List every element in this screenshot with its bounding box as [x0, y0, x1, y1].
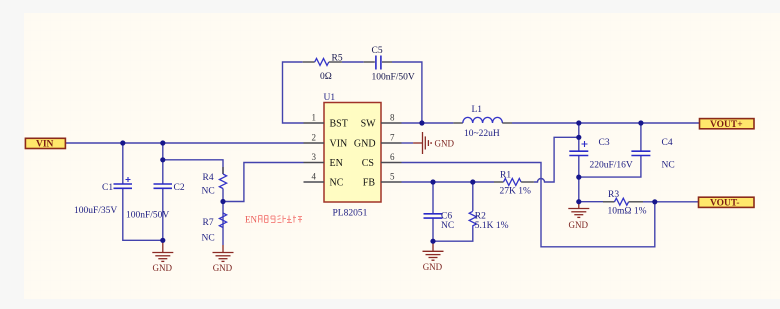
wire: R5 to C5 top segment — [342, 61, 364, 63]
pin 8 SW — [381, 122, 402, 124]
svg-text:EN: EN — [245, 215, 257, 225]
svg-text:C5: C5 — [372, 46, 383, 56]
resistor R4 — [202, 167, 227, 197]
node C3 top/FB sense — [576, 135, 581, 140]
port VIN — [25, 138, 65, 149]
svg-text:L1: L1 — [472, 105, 483, 115]
svg-text:C4: C4 — [662, 138, 673, 148]
svg-text:10~22uH: 10~22uH — [464, 129, 500, 139]
svg-text:3: 3 — [312, 152, 317, 162]
pin 5 FB — [381, 181, 402, 183]
pin 3 EN — [304, 162, 325, 164]
wire: R1 right with hop over CS — [534, 137, 579, 182]
port VOUT+ — [700, 119, 755, 130]
pin 7 GND — [381, 142, 402, 144]
capacitor C2 — [126, 183, 185, 221]
wire: C6 drop — [432, 182, 434, 214]
svg-text:4: 4 — [312, 172, 317, 182]
pin 6 CS — [381, 162, 402, 164]
svg-text:SW: SW — [361, 119, 377, 130]
svg-text:GND: GND — [153, 263, 173, 273]
node VOUT+/C4 — [638, 120, 643, 125]
svg-text:100nF/50V: 100nF/50V — [372, 73, 415, 83]
svg-text:NC: NC — [202, 187, 215, 197]
wire: L1 to VOUT+ — [512, 122, 700, 124]
node gnd/R3 — [576, 199, 581, 204]
svg-text:PL82051: PL82051 — [333, 209, 368, 219]
svg-text:C1: C1 — [102, 183, 113, 193]
svg-text:2: 2 — [312, 133, 317, 143]
node VOUT+/C3 — [576, 120, 581, 125]
wire: pin7 to power gnd — [402, 142, 414, 144]
wire: C5 to SW vertical — [392, 62, 422, 123]
svg-text:C3: C3 — [599, 138, 610, 148]
svg-text:VOUT-: VOUT- — [710, 199, 740, 209]
svg-text:C6: C6 — [441, 212, 452, 222]
svg-text:5: 5 — [390, 172, 395, 182]
wire: C3 top drop — [578, 123, 580, 151]
ground below R7 — [213, 245, 234, 273]
ground below C3 — [568, 203, 589, 231]
wire: CS run with hop down to bottom rail — [402, 163, 655, 247]
IC U1 PL82051 — [304, 93, 402, 219]
resistor R7 — [202, 213, 227, 244]
svg-text:27K 1%: 27K 1% — [500, 187, 531, 197]
node FB/R2 — [470, 179, 475, 184]
pin 1 BST — [304, 122, 325, 124]
inductor L1 — [453, 105, 512, 139]
resistor R2 — [469, 211, 508, 231]
svg-text:EN: EN — [330, 158, 343, 169]
wire: C2 vertical from VIN rail — [162, 143, 164, 184]
wire: gnd node to R3 — [579, 201, 603, 203]
power ground at pin 7 — [413, 132, 454, 154]
svg-text:8: 8 — [390, 113, 395, 123]
svg-text:6: 6 — [390, 152, 395, 162]
capacitor C4 — [631, 138, 674, 171]
wire: C4 top drop — [640, 123, 642, 151]
svg-text:VIN: VIN — [36, 140, 54, 150]
svg-text:R4: R4 — [203, 173, 214, 183]
svg-text:5.1K 1%: 5.1K 1% — [475, 221, 509, 231]
resistor R5 — [303, 54, 343, 83]
node FB/C6 — [430, 179, 435, 184]
node EN branch — [160, 157, 165, 162]
wire: C6 bottom to gnd node — [432, 218, 434, 241]
wire: R3 to VOUT- — [643, 201, 699, 203]
svg-text:C2: C2 — [174, 183, 185, 193]
svg-text:R7: R7 — [203, 218, 214, 228]
resistor R3 — [603, 190, 647, 217]
svg-text:1: 1 — [312, 113, 317, 123]
svg-text:R2: R2 — [475, 212, 486, 222]
node C2/VIN — [160, 140, 165, 145]
wire: C3 bottom / C4 bottom tie — [579, 155, 641, 202]
svg-text:R1: R1 — [500, 171, 511, 181]
svg-text:10mΩ 1%: 10mΩ 1% — [608, 207, 647, 217]
svg-text:R3: R3 — [608, 190, 619, 200]
svg-text:GND: GND — [423, 262, 443, 272]
wire: R2 drop — [472, 182, 474, 211]
svg-text:NC: NC — [441, 221, 454, 231]
node SW/bootstrap — [419, 120, 424, 125]
capacitor C1 — [74, 177, 132, 216]
pin 4 NC — [304, 181, 325, 183]
svg-text:NC: NC — [330, 178, 344, 189]
svg-text:220uF/16V: 220uF/16V — [590, 161, 633, 171]
svg-text:U1: U1 — [324, 93, 336, 103]
node R3/VOUT-/CS — [652, 199, 657, 204]
wire: BST loop left vertical — [283, 62, 304, 123]
node C3/C4 bottom — [576, 175, 581, 180]
svg-text:GND: GND — [569, 220, 589, 230]
wire: C2 bottom — [162, 188, 164, 240]
wire: SW to L1 — [402, 122, 454, 124]
resistor R1 — [494, 171, 534, 197]
ground below C6/R2 — [423, 242, 444, 272]
svg-text:7: 7 — [390, 133, 395, 143]
wire: C1 bottom to gnd rail — [123, 188, 163, 242]
svg-text:FB: FB — [363, 178, 376, 189]
node C1/VIN — [120, 140, 125, 145]
port VOUT- — [699, 197, 755, 208]
wire: R7 bottom to gnd — [222, 189, 224, 246]
node R4/R7 — [220, 199, 225, 204]
svg-text:100uF/35V: 100uF/35V — [74, 206, 117, 216]
svg-text:NC: NC — [662, 161, 675, 171]
svg-text:BST: BST — [330, 119, 348, 130]
svg-text:100nF/50V: 100nF/50V — [126, 211, 169, 221]
svg-text:0Ω: 0Ω — [320, 72, 332, 82]
svg-text:NC: NC — [202, 234, 215, 244]
ground below C1/C2 — [152, 242, 173, 273]
wire: FB rail — [402, 181, 495, 183]
wire: EN branch to R4 top — [163, 160, 223, 174]
svg-text:R5: R5 — [332, 54, 343, 64]
svg-text:GND: GND — [435, 139, 455, 149]
pin 2 VIN — [304, 142, 325, 144]
wire: R4/R7 node to EN pin — [223, 163, 304, 202]
wire: R2 bottom to gnd node — [433, 229, 473, 242]
node gnd rail C1/C2 — [160, 238, 165, 243]
svg-text:GND: GND — [354, 139, 376, 150]
capacitor C6 — [424, 212, 455, 232]
capacitor C5 — [364, 46, 415, 83]
capacitor C3 — [569, 138, 633, 171]
wire: C1 vertical from VIN rail — [122, 143, 124, 184]
node C6/R2 gnd — [430, 239, 435, 244]
wire: VIN rail to pin 2 — [66, 142, 304, 144]
note EN internally pulled up — [245, 215, 302, 225]
svg-text:VOUT+: VOUT+ — [710, 120, 743, 130]
svg-text:CS: CS — [362, 158, 374, 169]
svg-text:VIN: VIN — [330, 139, 348, 150]
svg-text:GND: GND — [213, 263, 233, 273]
